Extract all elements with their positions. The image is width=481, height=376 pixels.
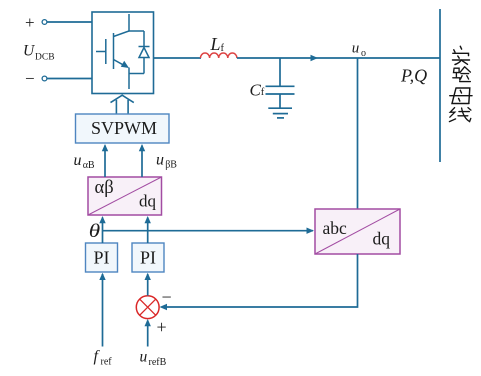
PI block 1 (86, 243, 118, 272)
svg-text:f: f (221, 43, 225, 54)
wire abc/dq output to summer (162, 254, 358, 307)
abc/dq block (315, 209, 400, 254)
wire negative terminal to inverter (47, 78, 92, 80)
label mu (experiment bus char 3) (450, 88, 472, 104)
label Lf (210, 34, 225, 54)
svg-text:refB: refB (149, 357, 167, 368)
svg-text:βB: βB (165, 160, 177, 171)
arrow on output wire (311, 55, 319, 61)
label ualphaB (74, 152, 95, 171)
svg-text:u: u (352, 41, 360, 57)
inverter U1 box (92, 12, 154, 94)
PI block 2 (132, 243, 164, 272)
summer S1 (136, 296, 159, 319)
plus sign (157, 317, 167, 337)
svg-text:ref: ref (101, 357, 113, 368)
wire positive terminal to inverter (47, 21, 92, 23)
ground (268, 108, 292, 118)
SVPWM block (76, 114, 170, 143)
capacitor Cf branch wire (279, 58, 281, 86)
input fref arrow (99, 273, 105, 347)
svg-text:u: u (140, 349, 148, 366)
DC negative terminal (25, 69, 47, 88)
minus sign (162, 287, 172, 307)
wire theta to abc/dq (103, 228, 315, 234)
svg-text:u: u (156, 152, 164, 169)
label uo (352, 41, 366, 60)
svg-text:L: L (210, 34, 221, 54)
svg-text:abc: abc (323, 218, 348, 238)
svg-text:u: u (74, 152, 82, 169)
wire uo feedback down (357, 58, 359, 209)
wire inverter output (154, 57, 202, 59)
label Cf (250, 81, 265, 100)
capacitor Cf (266, 86, 295, 108)
wire ualphaB to SVPWM (102, 144, 108, 177)
label shi (experiment bus char 1) (453, 46, 470, 64)
label ubetaB (156, 152, 177, 171)
svg-text:αβ: αβ (95, 178, 114, 198)
svg-text:PI: PI (93, 248, 109, 268)
wire summer to PI2 (145, 273, 151, 296)
wire Lf to bus (237, 57, 440, 59)
svg-text:SVPWM: SVPWM (91, 118, 157, 138)
DC positive terminal (25, 13, 47, 32)
wire PI1 to alpha-beta/dq (99, 216, 105, 243)
arrow into summer from right (160, 304, 168, 310)
svg-text:o: o (361, 48, 366, 59)
node theta (89, 220, 100, 242)
svg-text:−: − (162, 287, 172, 307)
input urefB arrow (145, 319, 151, 347)
svg-text:−: − (25, 69, 35, 88)
svg-text:θ: θ (89, 220, 100, 242)
SVPWM drive arrow (111, 95, 134, 114)
svg-text:f: f (94, 348, 101, 365)
svg-text:DCB: DCB (35, 53, 55, 63)
label xian (experiment bus char 4) (449, 108, 471, 122)
wire PI2 to alpha-beta/dq (145, 216, 151, 243)
svg-text:dq: dq (373, 229, 391, 249)
svg-text:P,Q: P,Q (400, 66, 427, 86)
label P,Q (400, 66, 427, 86)
label urefB (140, 349, 167, 369)
alpha-beta/dq block (88, 177, 162, 215)
label yan (experiment bus char 2) (453, 67, 471, 82)
svg-text:f: f (261, 87, 265, 98)
svg-text:αB: αB (83, 160, 95, 171)
svg-text:+: + (25, 13, 35, 32)
IGBT Q1 (96, 14, 129, 89)
svg-text:PI: PI (140, 248, 156, 268)
label UDCB (23, 43, 55, 63)
diode D1 (129, 31, 150, 74)
svg-text:dq: dq (139, 192, 157, 211)
experimental bus line (439, 9, 441, 162)
svg-text:+: + (157, 317, 167, 337)
inductor Lf (201, 53, 237, 58)
label fref (94, 348, 113, 368)
svg-text:C: C (250, 81, 262, 100)
wire ubetaB to SVPWM (139, 144, 145, 177)
